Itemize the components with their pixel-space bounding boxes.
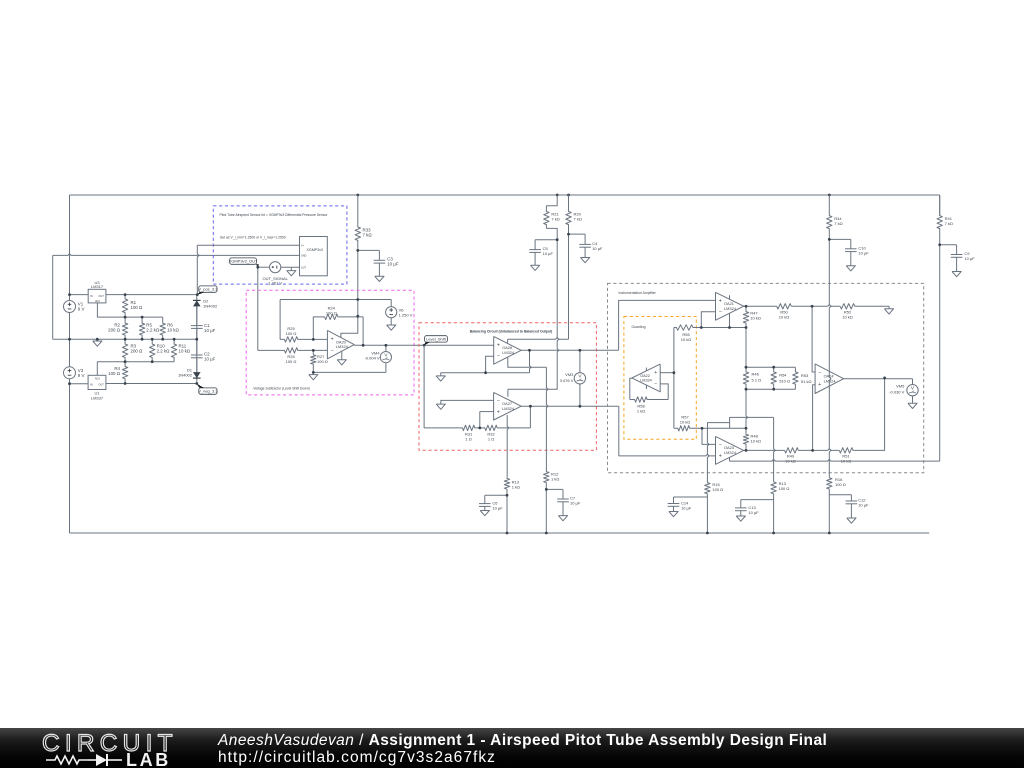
wire OA24 plus feed [813,385,816,451]
junction XGMP out [256,266,259,269]
wire top +9V rail [70,194,940,196]
wire gain column [673,328,675,429]
junction gnd V1 [68,338,71,341]
junction bottom rail R15 [706,532,709,535]
ground OA20 vminus [341,351,343,359]
junction V3 minus [68,382,71,385]
junction C7 node [545,488,548,491]
resistor R6 [160,317,165,339]
wire ground drop left [52,255,54,339]
resistor R50 [777,304,792,309]
op-amp OA23 LM324 [716,436,744,464]
wire OA27 minus to ground [441,400,494,404]
junction C4 node [567,233,570,236]
ground C4 [581,258,590,263]
resistor R20 supply chain [566,195,571,234]
junction C3 node [356,249,359,252]
junction R10 bottom [151,360,154,363]
ground R52 [884,309,893,314]
wire right supply column [829,239,831,477]
wire opamp vplus feed [341,316,358,338]
junction R10 top [151,338,154,341]
junction bottom rail R12 [545,532,548,535]
junction R5 top [141,316,144,319]
wire subtractor ref top [280,299,391,301]
capacitor C13 branch [741,499,774,501]
wire feedback from output [362,317,364,345]
junction bottom rail R13 [506,532,509,535]
sensor XGMP3v3 [300,237,328,276]
wire supply over to RC [730,417,774,422]
wire adj row upper [125,316,163,318]
resistor R55 [674,325,701,330]
wire OA22 plus tap [660,372,674,374]
svg-text:http://circuitlab.com/cg7v3s2a: http://circuitlab.com/cg7v3s2a67fkz [218,749,496,766]
resistor R15 [705,483,710,494]
resistor R32 [480,425,531,430]
node V_pos_3.3 column [197,245,199,294]
capacitor C2 [191,354,203,356]
capacitor C5 branch [535,239,557,241]
junction OA20 plus [312,338,315,341]
ground mid-rail [93,341,102,346]
ground C10 [846,266,855,271]
capacitor C10 branch [829,238,851,240]
logo resistor symbol [46,756,88,764]
resistor R12 lower [544,471,549,484]
wire R24 to node [338,316,363,318]
ground V6 [387,325,396,330]
resistor R52 [840,304,855,309]
resistor R5 [139,317,144,339]
wire minus drop to OA23 [702,428,716,444]
container Voltage Subtractor magenta box [246,290,414,395]
logo diode symbol [88,754,122,766]
wire gain to R48 node [746,389,748,428]
junction OA21 output [745,305,748,308]
resistor R48 [743,428,748,450]
junction OA20 minus [312,349,315,352]
wire R24 input branch [313,317,324,340]
wire bottom rail [70,532,930,534]
junction OA23 output [745,449,748,452]
ground R27 [312,372,314,374]
node label V_pos_3.3 [199,286,217,292]
wire OA23 vplus stub [729,458,731,462]
junction C9 node [938,243,941,246]
wire U3 OUT row [106,294,197,296]
regulator U1 LM337 [88,375,106,389]
wire ground feed to sensor GND [53,254,300,256]
junction R48 top [745,427,748,430]
wire OA23 output row [744,449,785,451]
node label V_neg_3.3 [199,388,217,394]
junction bottom rail R16 [828,532,831,535]
wire R32 up to output [529,406,531,428]
wire input1 to OA21 [619,300,716,350]
resistor R58 [630,397,668,402]
node label XGMP3v3_OUT [230,258,257,264]
junction V1 plus [68,293,71,296]
capacitor C1 [191,325,203,327]
wire OA20 output row [354,344,494,346]
wire V1 to U3 IN [70,294,89,296]
ground OA26 minus row [440,373,442,376]
wire OA27 bottom stub down [507,415,509,477]
voltmeter VM4 [385,345,387,351]
wire OA26 vplus stub [507,339,509,343]
wire OA26 minus loop [486,356,494,372]
junction R49 node [811,449,814,452]
wire XGMP3v3_OUT drop [257,267,259,350]
resistor R57 [674,426,702,431]
resistor R21 supply chain [546,195,557,206]
ground C13 [736,516,745,521]
op-amp OA22 LM324 guard [632,364,660,392]
junction top rail R21 [556,194,559,197]
resistor R25 [280,337,327,342]
resistor R27 [311,350,316,372]
junction R47 bottom [745,326,748,329]
junction R3 bottom [124,360,127,363]
ground C12 [847,518,856,523]
resistor R26 [258,348,328,353]
resistor R1 [122,295,127,318]
wire far right down [939,245,941,461]
wire input2 to OA23 [618,406,620,456]
wire U1 ADJ [96,362,98,376]
junction V_pos node [196,293,199,296]
container Pitot sensor blue box [213,206,347,284]
wire minus node row [701,327,746,329]
resistor R13 lower [504,477,509,489]
wire R20 node down [568,234,570,339]
junction R24 node [356,315,359,318]
voltmeter VM5 [912,379,914,385]
wire R58 to output [630,378,632,399]
junction R27 bottom [312,371,315,374]
op-amp OA24 LM324 [815,364,844,394]
capacitor C3 branch [358,249,380,251]
junction VM3 top [579,349,582,352]
ground OA27 minus [436,404,445,409]
ground VM5 [908,403,917,408]
capacitor C6 branch [485,494,507,496]
junction C1 mid [195,338,198,341]
junction gain rail bottom [745,388,748,391]
op-amp OA26 LM324 [494,336,522,364]
resistor R2 [122,317,127,339]
junction OA21 vminus stub [728,326,731,329]
wire minus feed to OA24 [812,306,815,372]
capacitor C4 branch [569,233,586,235]
junction R4 bottom [124,382,127,385]
wire R12 to bottom rail [545,484,547,533]
capacitor C12 branch [829,494,851,496]
regulator U3 LM317 [88,289,106,303]
junction gain rail top [745,366,748,369]
junction C5 node [556,238,559,241]
wire R51 feedback up [853,378,885,451]
junction ref wire [356,298,359,301]
resistor R4 [122,362,127,384]
wire to R51 [798,449,839,451]
resistor R16 [827,478,832,489]
voltmeter VM3 [579,350,581,372]
wire output row to R52 [791,305,840,307]
junction R54 bottom [772,388,775,391]
junction R2 bottom [124,338,127,341]
junction VM3 bottom [579,405,582,408]
capacitor C9 branch [940,244,957,246]
wire positive power run [730,459,940,461]
junction OA20 feedback [362,344,365,347]
junction R31 R32 node [478,427,481,430]
junction OA26 output [528,349,531,352]
wire OA21 vplus stub [729,295,731,299]
wire plus input drop OA27 [479,412,481,428]
wire far right supply [939,195,941,216]
junction top rail R33 [356,194,359,197]
op-amp OA21 LM324 [716,292,744,320]
ground C5 [531,265,540,270]
resistor R41 [937,195,942,245]
wire sensor V+ feed [197,244,299,246]
resistor R47 [743,306,748,327]
ground at sensor [290,267,292,270]
junction R50 node [811,305,814,308]
resistor R11 [171,339,176,362]
wire OA26 output row [521,349,618,351]
resistor R49 [785,448,799,453]
ground C6 [480,511,489,516]
junction gnd symbol [96,338,99,341]
diode D2 1N4002 [193,300,201,306]
svg-text:AneeshVasudevan / Assignment 1: AneeshVasudevan / Assignment 1 - Airspee… [217,732,827,749]
junction R5 bottom [141,338,144,341]
wire OA24 output row [844,378,913,380]
wire ref drop to R25 [279,300,281,340]
wire OA21 minus input [701,312,715,328]
resistor R31 [424,425,480,430]
resistor R51 [839,448,853,453]
junction top rail R20 [567,194,570,197]
resistor R44 [827,195,832,239]
junction R1 bottom [124,316,127,319]
resistor R53 [793,367,798,389]
ground C3 [375,276,384,281]
wire OA26 gnd row [441,372,530,374]
container Balancing Circuit red box [419,323,596,451]
container Instrumentation Amplifier gray box [608,283,924,472]
junction C10 node [828,238,831,241]
junction V_neg node [195,382,198,385]
junction OA27 output [529,405,532,408]
resistor R33 supply chain [355,195,360,250]
junction R1 top [124,293,127,296]
wire OA22 power stubs [645,368,647,372]
junction R54 top [772,366,775,369]
wire left rail vertical [69,195,71,533]
junction OA24 output [883,377,886,380]
junction R11 top [173,338,176,341]
op-amp OA27 LM324 (inverting) [494,392,522,420]
source V6 1.250V [390,300,392,307]
junction guard tap [673,371,676,374]
wire OA21 vminus stub [729,313,731,327]
wire input drop to R31 [423,345,425,428]
wire RC drop mid [774,417,776,482]
voltage source V1 [64,301,76,313]
resistor R46 [743,367,748,389]
junction VM4 top [385,344,388,347]
svg-text:LAB: LAB [126,750,171,768]
diode D1 1N4002 [193,372,201,378]
wire RC drop left [707,428,709,482]
ground C14 [669,512,678,517]
wire R52 to ground [855,306,889,309]
resistor R13 lower [771,482,776,494]
op-amp OA20 LM324 [327,330,354,358]
wire R27 bottom row [313,371,386,373]
wire OA27 output row [521,405,619,407]
wire R57 node row [702,427,746,429]
wire neg supply drop [557,240,559,390]
resistor R3 [122,339,127,362]
ground C9 [952,272,961,277]
wire OA22 feedback loop [660,384,668,400]
junction Level_Shift [423,344,426,347]
wire feedback OA26 [530,350,532,372]
junction OA26 minus net [484,371,487,374]
voltage source V3 [64,367,76,379]
junction R6 bottom [161,338,164,341]
wire OA26 vminus stub [508,357,547,367]
CircuitLab logo wordmark [42,730,178,757]
wire OA21 output row [744,305,777,307]
wire lower adj row [97,361,174,363]
wire gain network bottom [746,388,795,390]
wire U3 ADJ [97,303,125,317]
junction R57 node [701,427,704,430]
wire R13 to bottom rail [506,489,508,533]
junction bottom rail R13 lower [772,532,775,535]
source OUT_SIGNAL [270,262,281,273]
wire gain network top [745,328,747,368]
junction top rail R44 [828,194,831,197]
wire V3 to U1 IN [70,383,89,385]
wire U1 OUT row [106,383,197,385]
junction C6 node [506,494,509,497]
footer url text [218,749,496,766]
node label Level_Shift [425,336,448,342]
resistor R10 [150,339,155,362]
capacitor C7 branch [546,488,563,490]
wire R33 node down [357,250,359,316]
resistor R24 [324,314,338,319]
wire sensor OUT [281,266,300,268]
wire OA27 top power stub [507,389,509,397]
wire supply jog rect [708,423,730,429]
footer title text [217,732,827,749]
capacitor C14 branch [674,496,708,498]
container Guarding orange box [624,317,696,440]
junction OA21 minus [700,326,703,329]
logo LAB text [126,750,171,768]
ground C7 [558,516,567,521]
wire negative power rail [508,388,558,390]
wire mid ground rail [53,338,197,340]
wire vminus chain down [546,367,548,471]
resistor R54 [771,367,776,389]
